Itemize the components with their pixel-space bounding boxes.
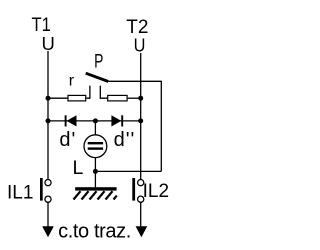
relay L circle — [84, 135, 107, 158]
junction dot center diode row — [93, 118, 98, 123]
resistor (second, unlabeled) — [108, 95, 127, 101]
svg-text:c.to traz.: c.to traz. — [58, 221, 131, 243]
ground hatching — [74, 191, 117, 199]
switch P arm — [86, 73, 109, 81]
contact IL1 upper circle — [45, 180, 51, 186]
contact IL1 bar — [40, 178, 43, 201]
svg-text:L: L — [73, 157, 84, 179]
svg-text:IL1: IL1 — [7, 183, 33, 204]
svg-text:U: U — [42, 33, 55, 54]
wire: center node down to relay L — [94, 121, 96, 135]
junction dot left rail / diode row — [46, 118, 51, 123]
wire: diode row — [48, 120, 141, 122]
wire: IL1 to traction circuit arrow — [47, 202, 49, 228]
wire: right rail vertical — [140, 53, 142, 179]
svg-text:U: U — [134, 35, 146, 56]
svg-text:d'': d'' — [114, 129, 136, 151]
relay L upper plate — [88, 142, 103, 144]
wire: resistor 2 to right rail — [128, 97, 141, 99]
svg-text:d': d' — [59, 129, 76, 151]
arrow to traction circuit (right) — [136, 226, 148, 237]
wire: left rail vertical — [47, 51, 49, 180]
svg-text:P: P — [94, 52, 103, 73]
svg-text:r: r — [69, 73, 75, 90]
wire: resistor r to switch left contact — [86, 86, 90, 99]
contact IL1 lower circle — [45, 196, 51, 202]
contact IL2 lower circle — [138, 196, 144, 202]
switch right contact tick and wire to resistor 2 — [100, 86, 107, 99]
junction dot ground node — [93, 169, 98, 174]
svg-text:IL2: IL2 — [143, 181, 169, 202]
resistor r — [68, 95, 86, 101]
diode d'' (triangle pointing right, cathode bar right) — [111, 115, 121, 126]
wire: bottom loop horizontal — [95, 170, 161, 172]
contact IL2 upper circle — [138, 180, 144, 186]
contact IL2 bar — [132, 178, 135, 201]
junction dot right rail / resistor row — [138, 96, 143, 101]
arrow to traction circuit (left) — [42, 226, 54, 237]
junction dot right rail / diode row — [138, 118, 143, 123]
wire: relay L to ground node — [94, 158, 96, 188]
wire: IL2 to traction circuit arrow — [140, 202, 142, 228]
junction dot left rail / resistor row — [46, 96, 51, 101]
ground bar — [75, 187, 116, 190]
wire: left rail to resistor r — [48, 97, 67, 99]
wire: bypass loop from switch arm to right side — [108, 81, 161, 171]
diode d' (cathode bar left, triangle pointing left) — [65, 115, 67, 126]
relay L lower plate — [88, 147, 103, 149]
